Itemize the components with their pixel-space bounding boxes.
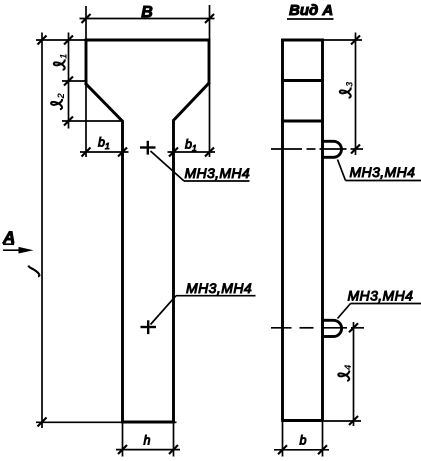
front view: head right edge — [208, 39, 211, 83]
tick l2 bottom — [64, 117, 73, 126]
extension line up from head top-right for B — [209, 5, 211, 40]
side view: divider 2 — [281, 120, 324, 123]
svg-text:4: 4 — [343, 365, 353, 371]
leader line to cross 2 — [151, 296, 177, 325]
dimension line b1 left — [80, 151, 129, 153]
svg-text:2: 2 — [56, 92, 66, 99]
leader loop 1 to label — [338, 160, 346, 181]
dimension line l4 — [353, 322, 355, 426]
svg-text:Вид А: Вид А — [289, 2, 333, 19]
front view: column left edge — [121, 120, 124, 423]
svg-text:В: В — [141, 4, 153, 21]
svg-text:МН3,МН4: МН3,МН4 — [185, 165, 250, 181]
label l3 (rotated) — [340, 82, 355, 98]
lifting loop 2 (side) — [323, 320, 342, 336]
front view: right chamfer — [173, 82, 210, 121]
dimension line h — [116, 449, 180, 451]
tick b1 left a — [82, 148, 91, 157]
dimension line B — [80, 18, 215, 20]
tick l1/l2 middle — [64, 77, 73, 86]
tick h right — [169, 445, 178, 454]
overall length dimension line — [41, 33, 43, 429]
cross mark loop 2 (front) — [141, 320, 157, 334]
tick bottom of overall length — [38, 418, 47, 427]
tick l1 top — [64, 36, 73, 45]
tick h left — [118, 445, 127, 454]
underline of label MN3,MN4 (side bottom) — [351, 303, 421, 305]
front view: head left edge — [85, 39, 88, 84]
l1/l2 dimension line — [68, 33, 70, 129]
label l1 (rotated) — [54, 54, 69, 70]
lifting loop 1 (side) — [323, 141, 342, 157]
underline of label MN3,MN4 (side top) — [346, 180, 421, 182]
side view: left edge — [281, 39, 284, 421]
label l4 (rotated) — [338, 365, 353, 381]
side view: divider 1 — [281, 79, 324, 82]
svg-text:МН3,МН4: МН3,МН4 — [186, 280, 252, 296]
extension lines below side view for b — [282, 422, 284, 457]
label l (rotated) overall length — [28, 266, 39, 277]
front view: left chamfer — [85, 83, 123, 121]
side view: top edge — [281, 39, 324, 42]
extension line at y=81 — [62, 80, 88, 82]
tick at B left — [82, 14, 91, 23]
extension line at bottom (y=422) — [36, 421, 177, 423]
dimension line l3 — [355, 33, 357, 156]
tick b1 left b — [118, 148, 127, 157]
underline of title — [287, 18, 334, 20]
svg-text:1: 1 — [59, 54, 69, 59]
view direction arrow — [3, 249, 22, 251]
extension of bottom edge to l4 dimension — [324, 420, 361, 422]
front view: column bottom edge — [121, 421, 175, 424]
extension line at y=121 — [62, 120, 123, 122]
svg-text:МН3,МН4: МН3,МН4 — [350, 164, 416, 180]
center line of loop 2 (dash-dot) — [271, 327, 364, 329]
center line of loop 1 (dash-dot) — [271, 148, 363, 150]
extension line up from head top-left for B — [85, 6, 87, 40]
underline of label MN3,MN4 (front top) — [184, 180, 250, 182]
tick l4 top — [349, 323, 358, 332]
dimension line b1 right — [168, 151, 216, 153]
side view: bottom edge — [281, 419, 324, 422]
tick at B right — [205, 14, 214, 23]
svg-text:1: 1 — [192, 143, 197, 153]
extension line down from right head corner — [209, 83, 211, 157]
svg-text:1: 1 — [105, 141, 110, 151]
extension line down from left chamfer corner — [85, 84, 87, 157]
tick b right — [318, 445, 327, 454]
front view: column right edge — [172, 120, 175, 423]
cross mark loop 1 (front) — [140, 141, 156, 155]
stroke under A — [3, 243, 14, 245]
tick l4 bottom — [349, 416, 358, 425]
svg-text:b: b — [98, 136, 105, 150]
svg-text:h: h — [144, 434, 151, 448]
svg-text:b: b — [185, 138, 192, 152]
front view: head top edge — [85, 39, 211, 42]
leader line to label MN3,MN4 (front top) — [151, 151, 185, 181]
extension of top edge to l3 dimension — [324, 39, 362, 41]
svg-text:3: 3 — [345, 82, 355, 87]
tick top of overall length — [38, 36, 47, 45]
side view: right edge — [321, 39, 324, 421]
extension lines below front column for h — [122, 423, 124, 457]
underline of label MN3,MN4 (front bottom) — [176, 295, 256, 297]
tick l3 bottom — [351, 145, 360, 154]
tick b1 right a — [169, 148, 178, 157]
tick b left — [278, 445, 287, 454]
label l2 (rotated) — [51, 92, 66, 109]
tick l3 top — [351, 36, 360, 45]
extension line left at top (y=40) — [36, 39, 86, 41]
tick b1 right b — [205, 148, 214, 157]
dimension line b — [274, 449, 329, 451]
leader loop 2 to label — [338, 304, 351, 319]
svg-text:МН3,МН4: МН3,МН4 — [348, 288, 414, 304]
svg-text:b: b — [300, 434, 307, 448]
